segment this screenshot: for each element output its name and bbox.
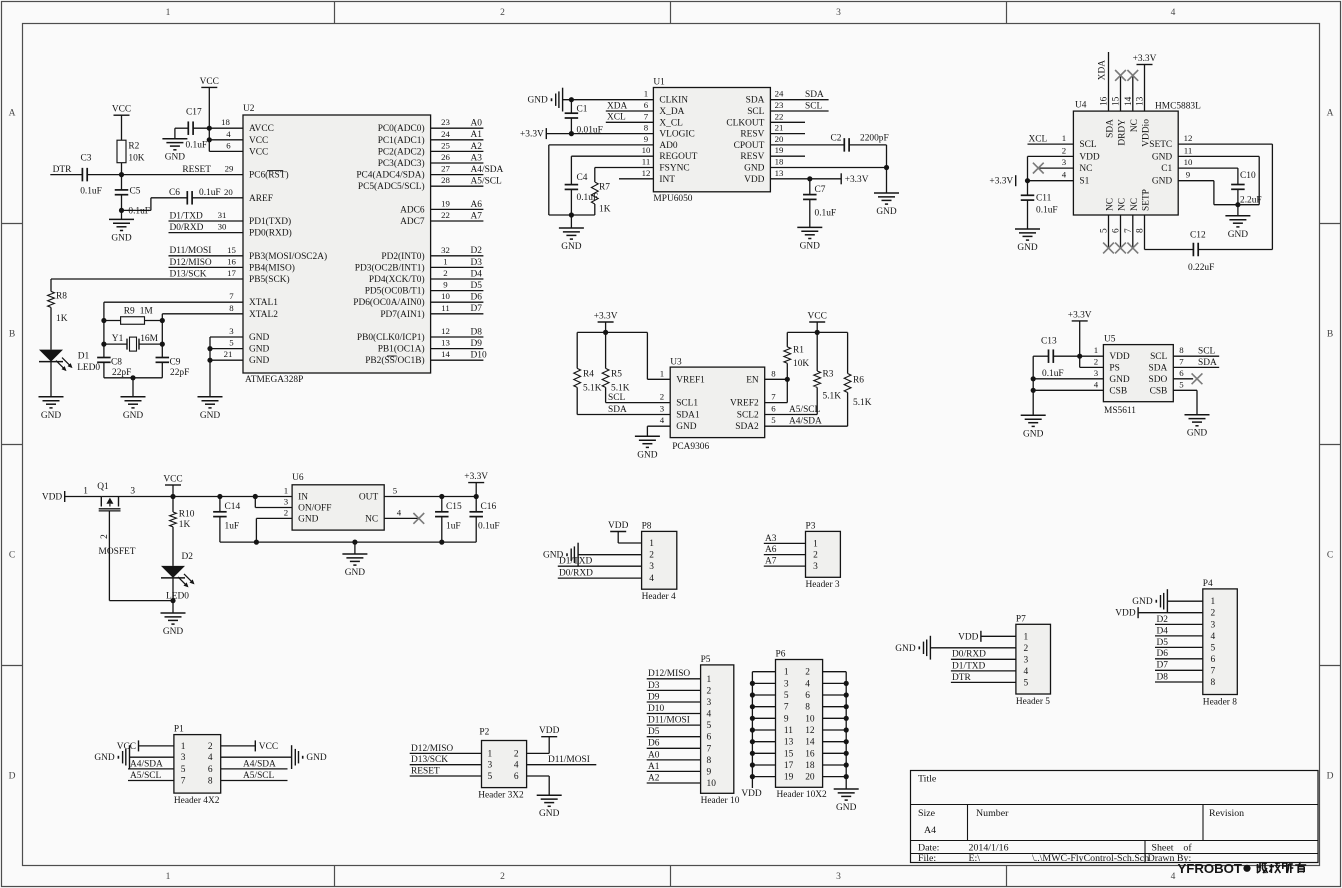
svg-text:0.1uF: 0.1uF [80, 186, 102, 196]
svg-text:5: 5 [1179, 379, 1184, 389]
svg-text:8: 8 [644, 123, 649, 133]
svg-text:XDA: XDA [607, 101, 628, 111]
svg-text:4: 4 [1171, 872, 1176, 882]
svg-text:22: 22 [441, 210, 450, 220]
svg-text:D5: D5 [1157, 638, 1169, 648]
svg-text:6: 6 [208, 765, 213, 775]
svg-text:13: 13 [784, 738, 794, 748]
svg-text:MS5611: MS5611 [1104, 406, 1136, 416]
svg-text:1: 1 [443, 256, 447, 266]
svg-text:PD2(INT0): PD2(INT0) [381, 251, 424, 262]
svg-text:15: 15 [227, 245, 236, 255]
svg-text:24: 24 [441, 129, 450, 139]
svg-text:2: 2 [100, 534, 110, 539]
svg-text:1: 1 [1024, 632, 1029, 642]
svg-text:D5: D5 [648, 727, 660, 737]
svg-text:PB0(CLK0/ICP1): PB0(CLK0/ICP1) [357, 332, 425, 343]
svg-text:D10: D10 [471, 351, 487, 361]
svg-text:3: 3 [813, 562, 818, 572]
svg-text:SCL: SCL [1198, 347, 1215, 357]
svg-text:18: 18 [221, 117, 230, 127]
svg-text:AD0: AD0 [659, 141, 678, 151]
svg-text:PD4(XCK/T0): PD4(XCK/T0) [369, 274, 425, 285]
svg-text:PB5(SCK): PB5(SCK) [249, 274, 290, 285]
svg-text:VLOGIC: VLOGIC [659, 130, 694, 140]
svg-text:1: 1 [813, 539, 818, 549]
svg-text:D6: D6 [648, 739, 660, 749]
svg-text:D: D [1327, 772, 1334, 782]
svg-text:C17: C17 [186, 107, 202, 117]
svg-text:3: 3 [1062, 157, 1067, 167]
svg-text:C: C [9, 551, 15, 561]
svg-text:PS: PS [1109, 363, 1119, 373]
svg-text:D3: D3 [471, 258, 483, 268]
svg-text:19: 19 [441, 198, 450, 208]
svg-text:PD3(OC2B/INT1): PD3(OC2B/INT1) [355, 262, 425, 273]
svg-text:1: 1 [166, 8, 171, 18]
svg-text:D11/MOSI: D11/MOSI [548, 755, 590, 765]
svg-text:6: 6 [805, 691, 810, 701]
svg-text:U4: U4 [1075, 101, 1087, 111]
svg-text:4: 4 [1210, 632, 1215, 642]
svg-text:2: 2 [514, 749, 519, 759]
svg-text:SDA: SDA [746, 96, 765, 106]
svg-text:Title: Title [918, 774, 937, 785]
svg-text:GND: GND [1017, 243, 1038, 253]
svg-text:14: 14 [441, 349, 450, 359]
svg-text:D1/TXD: D1/TXD [559, 557, 593, 567]
svg-text:GND: GND [676, 422, 697, 432]
svg-text:CLKIN: CLKIN [659, 96, 688, 106]
svg-text:6: 6 [1210, 655, 1215, 665]
svg-text:A4: A4 [924, 825, 936, 836]
svg-text:1: 1 [83, 487, 88, 497]
svg-text:13: 13 [775, 168, 784, 178]
svg-text:Header 4: Header 4 [642, 592, 676, 602]
svg-text:9: 9 [443, 280, 448, 290]
svg-text:5.1K: 5.1K [853, 398, 872, 408]
svg-text:D1: D1 [78, 352, 90, 362]
svg-text:GND: GND [123, 411, 144, 421]
svg-text:26: 26 [441, 152, 450, 162]
svg-text:Date:: Date: [918, 843, 939, 854]
svg-text:RESET: RESET [411, 766, 440, 776]
svg-text:7: 7 [784, 703, 789, 713]
svg-text:11: 11 [441, 303, 449, 313]
svg-text:17: 17 [227, 268, 236, 278]
svg-text:Revision: Revision [1209, 808, 1244, 819]
svg-text:B: B [1327, 330, 1333, 340]
svg-text:XCL: XCL [607, 113, 626, 123]
svg-text:28: 28 [441, 175, 450, 185]
svg-text:LED0: LED0 [77, 363, 100, 373]
svg-text:3: 3 [1094, 368, 1099, 378]
svg-text:2: 2 [208, 742, 213, 752]
svg-text:PC3(ADC3): PC3(ADC3) [378, 158, 425, 169]
svg-text:GND: GND [1152, 152, 1173, 162]
svg-text:GND: GND [744, 164, 765, 174]
svg-text:VDD: VDD [958, 632, 979, 642]
svg-text:XDA: XDA [1098, 60, 1108, 81]
svg-text:Header 5: Header 5 [1016, 697, 1050, 707]
svg-text:GND: GND [345, 568, 366, 578]
svg-text:20: 20 [775, 134, 784, 144]
svg-text:A2: A2 [471, 142, 483, 152]
svg-text:+3.3V: +3.3V [1133, 54, 1157, 64]
svg-text:12: 12 [642, 168, 651, 178]
svg-text:3: 3 [284, 497, 289, 507]
svg-text:7: 7 [644, 111, 649, 121]
svg-text:MPU6050: MPU6050 [653, 194, 692, 204]
svg-text:R8: R8 [56, 292, 67, 302]
svg-text:P8: P8 [642, 521, 652, 531]
svg-text:Number: Number [976, 808, 1009, 819]
svg-text:C8: C8 [111, 357, 122, 367]
svg-text:R9: R9 [124, 307, 135, 317]
svg-text:XTAL2: XTAL2 [249, 310, 278, 320]
svg-text:SDO: SDO [1149, 375, 1168, 385]
svg-text:VCC: VCC [112, 105, 131, 115]
svg-text:D9: D9 [648, 692, 660, 702]
svg-text:10: 10 [805, 714, 815, 724]
svg-text:5: 5 [1024, 678, 1029, 688]
svg-text:D0/RXD: D0/RXD [559, 569, 593, 579]
svg-text:NC: NC [1079, 164, 1092, 174]
svg-text:A4/SDA: A4/SDA [789, 417, 822, 427]
svg-text:4: 4 [397, 507, 402, 517]
svg-text:GND: GND [41, 411, 62, 421]
svg-text:GND: GND [1187, 429, 1208, 439]
svg-text:2: 2 [500, 872, 505, 882]
svg-text:C4: C4 [577, 173, 588, 183]
svg-text:Header 8: Header 8 [1203, 697, 1237, 707]
svg-text:9: 9 [784, 714, 789, 724]
svg-text:3: 3 [488, 761, 493, 771]
svg-text:5.1K: 5.1K [583, 384, 602, 394]
svg-text:VCC: VCC [249, 147, 268, 157]
svg-text:VDD: VDD [1115, 609, 1136, 619]
svg-text:4: 4 [226, 129, 231, 139]
svg-text:VDD: VDD [539, 726, 560, 736]
svg-text:+3.3V: +3.3V [520, 130, 544, 140]
svg-text:GND: GND [1152, 177, 1173, 187]
svg-text:Y1: Y1 [112, 334, 124, 344]
svg-text:A0: A0 [648, 750, 660, 760]
svg-text:D10: D10 [648, 704, 664, 714]
svg-text:1: 1 [1210, 597, 1215, 607]
svg-text:VREF2: VREF2 [730, 399, 759, 409]
svg-text:A3: A3 [765, 534, 777, 544]
svg-text:D0/RXD: D0/RXD [952, 650, 986, 660]
svg-text:DRDY: DRDY [1118, 119, 1128, 146]
svg-text:FSYNC: FSYNC [659, 164, 689, 174]
svg-text:GND: GND [111, 233, 132, 243]
svg-text:SCL: SCL [805, 101, 822, 111]
svg-text:5: 5 [1210, 643, 1215, 653]
svg-text:0.22uF: 0.22uF [1188, 263, 1214, 273]
svg-text:D11/MOSI: D11/MOSI [648, 716, 690, 726]
svg-text:B: B [9, 330, 15, 340]
svg-text:3: 3 [181, 753, 186, 763]
svg-text:23: 23 [441, 117, 450, 127]
svg-text:4: 4 [660, 415, 665, 425]
svg-text:9: 9 [1186, 170, 1191, 180]
svg-text:32: 32 [441, 245, 450, 255]
svg-text:D5: D5 [471, 281, 483, 291]
svg-text:11: 11 [1184, 145, 1192, 155]
svg-text:D11/MOSI: D11/MOSI [170, 246, 212, 256]
svg-text:C5: C5 [130, 187, 141, 197]
svg-text:10: 10 [707, 779, 717, 789]
svg-text:4: 4 [649, 574, 654, 584]
svg-text:D2: D2 [182, 552, 194, 562]
svg-text:0.01uF: 0.01uF [577, 125, 603, 135]
svg-text:PC4(ADC4/SDA): PC4(ADC4/SDA) [356, 170, 424, 181]
svg-text:D13/SCK: D13/SCK [170, 269, 207, 279]
svg-text:CSB: CSB [1150, 386, 1168, 396]
svg-text:PB2(SS/OC1B): PB2(SS/OC1B) [365, 355, 424, 366]
svg-text:1: 1 [649, 539, 654, 549]
svg-text:C2: C2 [831, 133, 842, 143]
svg-text:5: 5 [229, 338, 234, 348]
svg-text:7: 7 [771, 392, 776, 402]
svg-text:3: 3 [836, 872, 841, 882]
svg-text:GND: GND [249, 333, 270, 343]
svg-text:R1: R1 [793, 345, 804, 355]
svg-text:4: 4 [707, 710, 712, 720]
svg-text:2: 2 [1210, 609, 1215, 619]
svg-text:R2: R2 [128, 142, 139, 152]
svg-text:C1: C1 [1161, 164, 1172, 174]
svg-text:GND: GND [306, 753, 327, 763]
svg-text:D12/MISO: D12/MISO [411, 744, 453, 754]
svg-text:8: 8 [1210, 678, 1215, 688]
svg-text:C12: C12 [1190, 230, 1206, 240]
svg-text:18: 18 [805, 761, 815, 771]
svg-text:MOSFET: MOSFET [99, 547, 136, 557]
svg-text:7: 7 [229, 291, 234, 301]
svg-text:C1: C1 [577, 105, 588, 115]
svg-text:22: 22 [775, 111, 784, 121]
svg-text:10: 10 [1184, 157, 1193, 167]
svg-text:P5: P5 [701, 655, 711, 665]
svg-text:10K: 10K [793, 359, 809, 369]
svg-text:GND: GND [165, 153, 186, 163]
svg-text:INT: INT [659, 175, 675, 185]
svg-text:PD6(OC0A/AIN0): PD6(OC0A/AIN0) [353, 297, 424, 308]
svg-text:P7: P7 [1016, 614, 1026, 624]
svg-text:17: 17 [784, 761, 794, 771]
svg-text:3: 3 [649, 562, 654, 572]
svg-text:0.1uF: 0.1uF [186, 141, 208, 151]
svg-text:CLKOUT: CLKOUT [726, 118, 764, 128]
svg-text:VDD: VDD [744, 175, 765, 185]
svg-text:GND: GND [561, 242, 582, 252]
svg-text:5.1K: 5.1K [823, 392, 842, 402]
svg-text:3: 3 [836, 8, 841, 18]
svg-text:4: 4 [208, 753, 213, 763]
svg-text:P4: P4 [1203, 579, 1213, 589]
svg-text:SCL2: SCL2 [737, 411, 759, 421]
svg-text:AREF: AREF [249, 194, 273, 204]
svg-text:VDD: VDD [42, 493, 63, 503]
svg-text:0.1uF: 0.1uF [478, 521, 500, 531]
svg-text:VCC: VCC [249, 136, 268, 146]
svg-text:Sheet: Sheet [1152, 843, 1174, 854]
svg-text:D4: D4 [471, 269, 483, 279]
svg-text:VREF1: VREF1 [676, 375, 705, 385]
svg-text:GND: GND [836, 803, 857, 813]
svg-text:PB1(OC1A): PB1(OC1A) [378, 344, 425, 355]
svg-text:7: 7 [181, 777, 186, 787]
svg-text:XCL: XCL [1029, 135, 1048, 145]
svg-text:0.1uF: 0.1uF [128, 206, 150, 216]
svg-text:GND: GND [539, 809, 560, 819]
svg-text:PCA9306: PCA9306 [672, 442, 709, 452]
svg-text:20: 20 [805, 773, 815, 783]
svg-text:3: 3 [229, 326, 234, 336]
svg-text:3: 3 [1210, 620, 1215, 630]
svg-text:2: 2 [1062, 145, 1066, 155]
svg-text:GND: GND [249, 345, 270, 355]
svg-text:ON/OFF: ON/OFF [298, 504, 331, 514]
svg-text:GND: GND [163, 627, 184, 637]
svg-text:U5: U5 [1104, 335, 1116, 345]
svg-text:3: 3 [1024, 655, 1029, 665]
svg-text:A5/SCL: A5/SCL [130, 771, 162, 781]
svg-text:U6: U6 [292, 473, 304, 483]
svg-text:18: 18 [775, 157, 784, 167]
svg-text:2: 2 [660, 392, 664, 402]
svg-text:R10: R10 [179, 510, 195, 520]
svg-text:3: 3 [130, 486, 135, 496]
svg-text:8: 8 [771, 368, 776, 378]
svg-text:10: 10 [441, 291, 450, 301]
svg-text:A2: A2 [648, 773, 660, 783]
svg-text:D6: D6 [471, 293, 483, 303]
svg-text:9: 9 [644, 134, 649, 144]
svg-text:DTR: DTR [53, 165, 72, 175]
svg-text:GND: GND [298, 514, 319, 524]
svg-text:OUT: OUT [359, 493, 379, 503]
svg-text:P6: P6 [776, 650, 786, 660]
svg-text:\..\MWC-FlyControl-Sch.Sch: \..\MWC-FlyControl-Sch.Sch [1032, 853, 1149, 864]
svg-text:PB3(MOSI/OSC2A): PB3(MOSI/OSC2A) [249, 251, 327, 262]
svg-text:1: 1 [644, 89, 648, 99]
svg-text:1: 1 [1094, 345, 1098, 355]
svg-text:SDA: SDA [1149, 363, 1168, 373]
svg-text:14: 14 [805, 738, 815, 748]
svg-text:NC: NC [1118, 198, 1128, 211]
svg-text:C7: C7 [815, 185, 826, 195]
svg-text:6: 6 [226, 140, 231, 150]
svg-text:1: 1 [181, 742, 186, 752]
svg-text:5: 5 [181, 765, 186, 775]
svg-text:2: 2 [813, 551, 818, 561]
svg-text:A4/SDA: A4/SDA [130, 759, 163, 769]
svg-text:2: 2 [500, 8, 505, 18]
svg-text:SDA: SDA [608, 405, 627, 415]
svg-text:C13: C13 [1041, 337, 1057, 347]
svg-text:12: 12 [805, 726, 815, 736]
svg-text:10: 10 [642, 145, 651, 155]
svg-text:SDA: SDA [1106, 119, 1116, 138]
svg-text:ADC6: ADC6 [400, 205, 425, 215]
svg-text:R7: R7 [599, 182, 610, 192]
svg-text:7: 7 [1179, 356, 1184, 366]
svg-text:6: 6 [707, 733, 712, 743]
svg-text:S1: S1 [1079, 177, 1089, 187]
svg-text:1K: 1K [179, 520, 191, 530]
svg-text:1: 1 [784, 668, 789, 678]
svg-text:D12/MISO: D12/MISO [648, 669, 690, 679]
svg-text:VDD: VDD [608, 521, 629, 531]
svg-text:U2: U2 [243, 104, 255, 114]
svg-text:2014/1/16: 2014/1/16 [969, 843, 1009, 854]
svg-text:4: 4 [805, 679, 810, 689]
svg-text:D7: D7 [1157, 661, 1169, 671]
svg-text:ATMEGA328P: ATMEGA328P [245, 375, 303, 385]
svg-text:VDD: VDD [1109, 352, 1130, 362]
svg-text:6: 6 [771, 404, 776, 414]
svg-text:25: 25 [441, 140, 450, 150]
svg-text:A4/SDA: A4/SDA [471, 165, 504, 175]
svg-text:6: 6 [514, 772, 519, 782]
svg-text:SCL: SCL [1150, 352, 1167, 362]
svg-text:A: A [9, 109, 16, 119]
svg-text:IN: IN [298, 493, 308, 503]
svg-text:R5: R5 [611, 369, 622, 379]
svg-text:PD1(TXD): PD1(TXD) [249, 216, 291, 227]
svg-text:9: 9 [707, 767, 712, 777]
svg-text:AVCC: AVCC [249, 124, 274, 134]
svg-text:GND: GND [249, 356, 270, 366]
svg-text:D7: D7 [471, 304, 483, 314]
svg-text:30: 30 [218, 222, 227, 232]
svg-text:C14: C14 [225, 502, 241, 512]
svg-text:NC: NC [1106, 198, 1116, 211]
svg-text:D13/SCK: D13/SCK [411, 755, 448, 765]
svg-text:23: 23 [775, 100, 784, 110]
svg-text:24: 24 [775, 89, 784, 99]
svg-text:1K: 1K [56, 314, 68, 324]
svg-text:8: 8 [805, 703, 810, 713]
svg-text:29: 29 [225, 164, 234, 174]
svg-text:NC: NC [365, 514, 378, 524]
svg-text:2.2uF: 2.2uF [1240, 196, 1262, 206]
svg-text:Size: Size [918, 808, 936, 819]
svg-text:6: 6 [1179, 368, 1184, 378]
svg-text:C6: C6 [169, 188, 180, 198]
svg-text:SCL: SCL [1079, 140, 1096, 150]
svg-text:1: 1 [488, 749, 493, 759]
svg-text:D8: D8 [1157, 672, 1169, 682]
svg-text:NC: NC [1130, 198, 1140, 211]
svg-text:+3.3V: +3.3V [594, 311, 618, 321]
svg-text:22pF: 22pF [170, 368, 189, 378]
svg-text:R3: R3 [823, 369, 834, 379]
svg-text:C10: C10 [1240, 171, 1256, 181]
svg-text:D4: D4 [1157, 626, 1169, 636]
svg-text:5: 5 [784, 691, 789, 701]
svg-text:20: 20 [224, 187, 233, 197]
svg-text:D0/RXD: D0/RXD [170, 223, 204, 233]
svg-text:0.1uF: 0.1uF [815, 209, 837, 219]
svg-text:D12/MISO: D12/MISO [170, 258, 212, 268]
svg-text:REGOUT: REGOUT [659, 152, 697, 162]
svg-text:GND: GND [200, 411, 221, 421]
svg-text:C3: C3 [81, 153, 92, 163]
